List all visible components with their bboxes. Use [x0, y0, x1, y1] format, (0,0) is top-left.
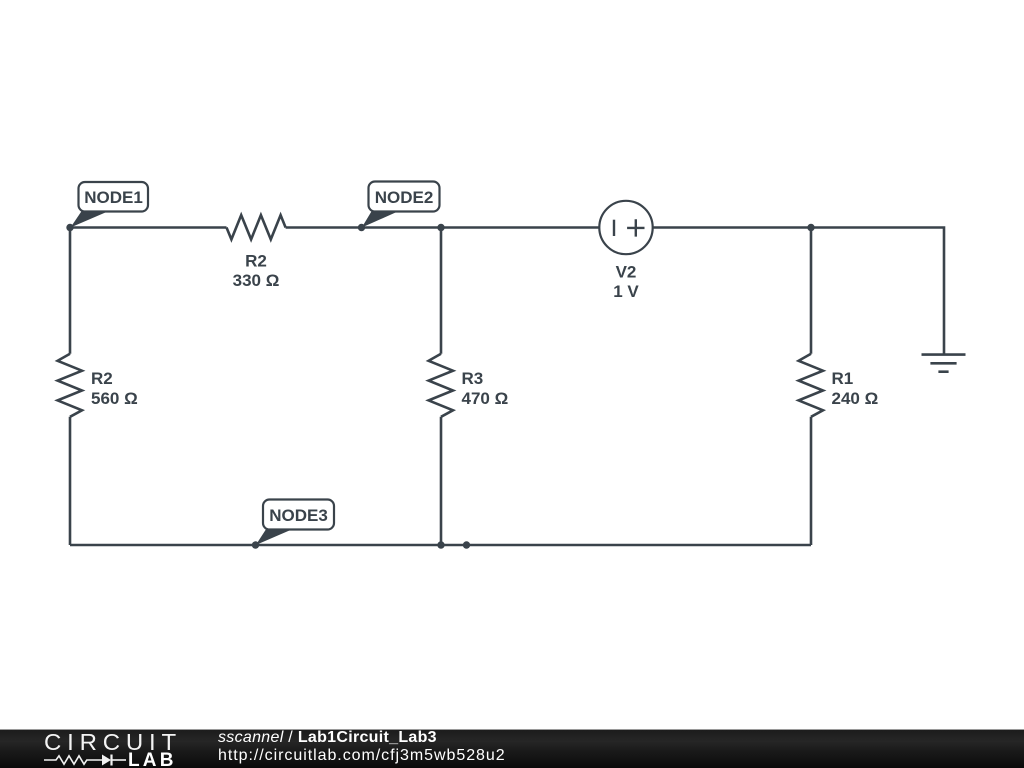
svg-text:R2: R2: [91, 369, 113, 388]
svg-text:R3: R3: [462, 369, 484, 388]
svg-text:V2: V2: [616, 263, 637, 282]
svg-text:NODE3: NODE3: [269, 506, 328, 525]
svg-text:470 Ω: 470 Ω: [462, 389, 509, 408]
svg-text:NODE2: NODE2: [375, 188, 434, 207]
svg-text:R1: R1: [832, 369, 854, 388]
svg-text:240 Ω: 240 Ω: [832, 389, 879, 408]
svg-text:560 Ω: 560 Ω: [91, 389, 138, 408]
svg-text:R2: R2: [245, 252, 267, 271]
svg-text:1 V: 1 V: [613, 282, 639, 301]
svg-text:NODE1: NODE1: [84, 188, 143, 207]
svg-text:330 Ω: 330 Ω: [233, 271, 280, 290]
